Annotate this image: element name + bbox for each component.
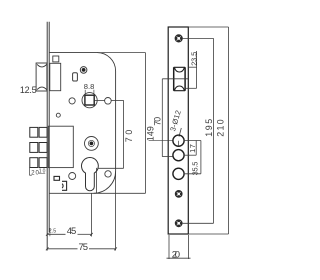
- 75 dim: [47, 248, 78, 250]
- 45 dim: [91, 193, 93, 236]
- bottom edge extension line to 149 dim: [94, 192, 146, 194]
- side circles at cylinder level: [69, 173, 76, 180]
- 210 dim: [188, 26, 228, 28]
- tiny circle: [56, 113, 60, 117]
- latch bolt head (left of faceplate): [36, 63, 47, 91]
- faceplate front view outline: [168, 27, 188, 234]
- svg-text:45: 45: [67, 226, 77, 237]
- 17 dim: [195, 141, 197, 156]
- 35.5 dim: [200, 141, 202, 174]
- screw S1: [80, 67, 87, 74]
- 23.5 dim: [196, 51, 198, 88]
- bottom screw leader to 195: [183, 222, 214, 224]
- body right edge extension down to 75 dim: [115, 171, 117, 250]
- 70 dim (right drawing): [161, 79, 163, 157]
- three holes: [173, 135, 184, 146]
- screw S2: [85, 137, 99, 151]
- svg-text:17: 17: [188, 144, 197, 153]
- lock case body outline: [49, 53, 115, 194]
- small rounded rect: [73, 73, 78, 81]
- small rect bottom: [54, 176, 60, 180]
- middle screw: [175, 190, 183, 198]
- follower hub circle + spindle square: [82, 93, 97, 108]
- svg-text:20: 20: [172, 250, 180, 261]
- top screw leader to 195: [182, 37, 213, 39]
- svg-text:70: 70: [124, 130, 134, 143]
- deadbolt body rect: [48, 126, 73, 167]
- svg-text:75: 75: [79, 242, 89, 253]
- svg-text:35.5: 35.5: [191, 162, 200, 176]
- 149 dim: [145, 53, 147, 194]
- svg-text:210: 210: [215, 119, 225, 137]
- euro cylinder profile: [82, 158, 99, 191]
- svg-text:149: 149: [145, 126, 155, 141]
- svg-text:195: 195: [204, 119, 214, 137]
- svg-text:70: 70: [152, 117, 162, 126]
- svg-text:12.5: 12.5: [20, 85, 37, 95]
- faceplate side view double line: [46, 22, 48, 251]
- bottom screw: [175, 219, 183, 227]
- 195 dim: [213, 38, 215, 223]
- 70 dim (left drawing): [123, 100, 125, 168]
- svg-text:23.5: 23.5: [189, 52, 198, 66]
- latch bolt body (inside case): [50, 63, 61, 90]
- latch centre line / 70 top extension: [162, 78, 188, 80]
- top screw: [175, 34, 183, 42]
- svg-text:8.8: 8.8: [84, 82, 95, 91]
- hook / spring clip: [62, 181, 67, 190]
- 20 dim bottom: [168, 235, 170, 259]
- top edge extension line to 149 dim: [97, 52, 146, 54]
- latch cutout front view: [174, 67, 185, 90]
- line from right circle to 70 dim: [95, 100, 105, 102]
- side circles at follower level: [69, 98, 75, 104]
- svg-text:3-Ø12: 3-Ø12: [168, 109, 183, 132]
- small square top: [53, 56, 59, 62]
- deadbolt stack squares: [30, 127, 47, 167]
